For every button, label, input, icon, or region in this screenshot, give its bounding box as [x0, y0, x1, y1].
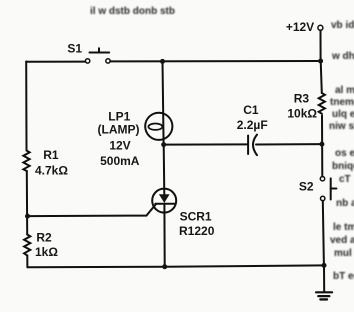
svg-text:R1220: R1220: [179, 224, 215, 238]
svg-text:bniqe: bniqe: [332, 161, 354, 172]
svg-text:2.2µF: 2.2µF: [237, 118, 268, 132]
svg-text:12V: 12V: [109, 139, 130, 153]
svg-text:ved ati: ved ati: [330, 235, 354, 246]
svg-text:4.7kΩ: 4.7kΩ: [35, 164, 68, 178]
svg-text:LP1: LP1: [108, 109, 130, 123]
svg-text:R2: R2: [36, 231, 52, 245]
svg-text:cT: cT: [339, 174, 351, 185]
svg-text:S1: S1: [67, 42, 82, 56]
svg-text:vb ido: vb ido: [331, 20, 354, 31]
svg-text:R3: R3: [294, 92, 310, 106]
svg-text:1kΩ: 1kΩ: [35, 245, 58, 259]
svg-text:+12V: +12V: [286, 20, 314, 34]
svg-text:il w dstb donb stb: il w dstb donb stb: [90, 6, 175, 17]
svg-text:al mb: al mb: [335, 85, 354, 96]
svg-text:(LAMP): (LAMP): [98, 122, 140, 136]
svg-text:ulq eno: ulq eno: [332, 109, 354, 120]
svg-text:niw slob: niw slob: [329, 121, 354, 132]
svg-text:S2: S2: [299, 180, 314, 194]
svg-text:mul s: mul s: [334, 248, 354, 259]
svg-text:nb a: nb a: [336, 198, 354, 209]
svg-text:R1: R1: [43, 148, 59, 162]
svg-text:w dho: w dho: [331, 51, 354, 62]
svg-text:500mA: 500mA: [100, 154, 140, 168]
svg-text:SCR1: SCR1: [180, 209, 212, 223]
svg-text:le tm: le tm: [333, 222, 354, 233]
svg-text:tnemec: tnemec: [330, 97, 354, 108]
svg-text:10kΩ: 10kΩ: [287, 106, 317, 120]
svg-text:C1: C1: [243, 103, 259, 117]
svg-text:bT eq: bT eq: [333, 271, 354, 282]
svg-text:os el: os el: [335, 148, 354, 159]
